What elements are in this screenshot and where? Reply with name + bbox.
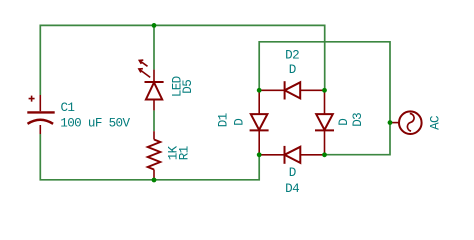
svg-text:100 uF 50V: 100 uF 50V <box>60 116 130 130</box>
svg-text:R1: R1 <box>177 146 191 160</box>
svg-text:D4: D4 <box>285 182 299 196</box>
svg-text:D1: D1 <box>216 113 230 127</box>
svg-text:AC: AC <box>428 115 442 130</box>
svg-text:C1: C1 <box>61 101 75 115</box>
svg-text:D2: D2 <box>285 48 299 62</box>
svg-text:D: D <box>289 63 296 77</box>
svg-text:D5: D5 <box>181 80 195 94</box>
svg-text:D3: D3 <box>351 113 365 127</box>
svg-text:D: D <box>232 119 246 126</box>
svg-text:D: D <box>289 166 296 180</box>
svg-text:D: D <box>337 119 351 126</box>
